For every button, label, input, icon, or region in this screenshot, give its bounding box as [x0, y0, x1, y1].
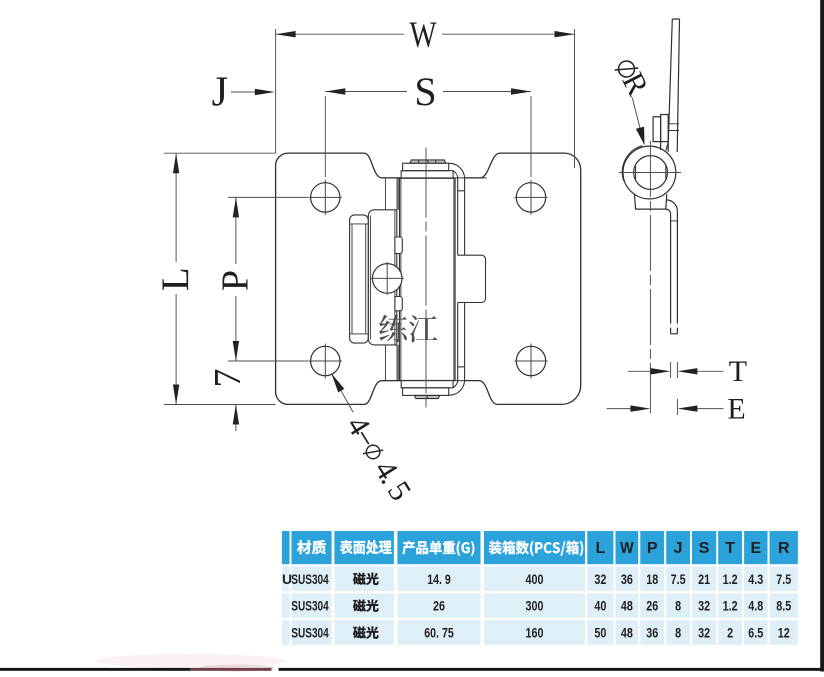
knuckle outer circle	[623, 146, 676, 199]
connecting verticals left of barrel	[385, 178, 398, 380]
svg-text:7: 7	[207, 369, 249, 388]
svg-text:SUS304: SUS304	[291, 598, 329, 614]
barrel bottom cap B	[403, 388, 449, 396]
svg-text:L: L	[596, 540, 606, 557]
svg-text:32: 32	[594, 571, 606, 587]
svg-text:18: 18	[646, 571, 658, 587]
pin bore flats	[636, 165, 666, 179]
svg-text:300: 300	[526, 598, 544, 614]
svg-text:W: W	[410, 15, 437, 56]
svg-text:T: T	[725, 540, 735, 557]
small latch bumps on link plate	[395, 237, 402, 254]
S extension lines	[325, 96, 531, 177]
svg-text:E: E	[727, 392, 745, 425]
neck below knuckle	[634, 194, 666, 210]
7 dimension tail below body	[235, 405, 237, 432]
svg-text:26: 26	[646, 598, 658, 614]
svg-text:S: S	[414, 69, 436, 114]
svg-text:36: 36	[646, 625, 658, 641]
barrel body	[400, 178, 456, 380]
center hole crosshair	[371, 262, 404, 295]
data row background strips	[282, 567, 798, 645]
header CJK labels as vector paths	[297, 540, 583, 556]
arrowheads side view	[630, 127, 697, 412]
svg-text:8: 8	[675, 598, 681, 614]
vertical center axis line	[425, 148, 427, 410]
svg-text:R: R	[778, 540, 790, 557]
center column: hinge knuckle barrel	[350, 160, 487, 399]
barrel bottom cap C	[401, 381, 453, 388]
svg-text:50: 50	[594, 625, 606, 641]
tick marks on upper plate	[669, 124, 679, 131]
page frame bottom rule	[0, 668, 190, 671]
svg-text:1.2: 1.2	[723, 598, 738, 614]
spring lever pill	[350, 215, 369, 343]
J leader line	[231, 91, 257, 93]
header latin letters	[596, 540, 791, 557]
stacked fold tabs left of plate	[653, 117, 661, 142]
barrel top ridge bumps	[410, 160, 446, 163]
svg-text:SUS304: SUS304	[291, 571, 329, 587]
svg-text:T: T	[729, 355, 747, 388]
svg-text:26: 26	[433, 598, 445, 614]
side view vertical axis centerline	[649, 141, 651, 413]
P dimension line	[235, 197, 237, 361]
barrel bottom ridge bumps	[414, 395, 439, 398]
W dimension line	[276, 33, 575, 35]
right leaf plate outline	[465, 153, 581, 404]
svg-text:8: 8	[675, 625, 681, 641]
rotated label phiR	[609, 53, 657, 101]
header row cells	[282, 531, 798, 564]
svg-text:L: L	[154, 267, 197, 291]
knuckle horizontal crosshair	[619, 172, 681, 174]
svg-text:W: W	[620, 540, 634, 557]
svg-text:60. 75: 60. 75	[424, 625, 454, 641]
svg-text:14. 9: 14. 9	[427, 571, 451, 587]
outer wrap top elbow	[449, 163, 465, 191]
svg-text:36: 36	[621, 571, 633, 587]
S dimension line	[325, 91, 531, 93]
dimension extension ticks T and E	[607, 98, 724, 416]
svg-text:P: P	[647, 540, 658, 557]
svg-text:6.5: 6.5	[748, 625, 763, 641]
svg-text:48: 48	[621, 598, 633, 614]
lower leaf break segment	[671, 328, 678, 334]
leader line 4-phi4.5	[331, 373, 353, 412]
holes 4-phi4.5 with crosshairs	[311, 183, 546, 376]
L extension lines	[164, 153, 276, 404]
page frame right rule	[820, 0, 824, 672]
svg-text:1.2: 1.2	[723, 571, 738, 587]
barrel top cap C	[401, 171, 453, 179]
E dimension tails	[607, 408, 724, 410]
data rows text	[282, 571, 792, 641]
T dimension tails	[628, 370, 724, 372]
faint pink smudge bottom-left	[95, 654, 285, 668]
knuckle pin bore	[634, 156, 668, 190]
middle link plate	[368, 210, 397, 345]
wrap side lines	[458, 191, 465, 367]
svg-text:4.8: 4.8	[748, 598, 763, 614]
ciguang cells	[353, 573, 378, 639]
arrowheads front view	[173, 31, 575, 425]
svg-text:SUS304: SUS304	[291, 625, 329, 641]
svg-text:P: P	[215, 270, 257, 291]
svg-text:E: E	[750, 540, 761, 557]
left leaf plate outline	[276, 153, 401, 404]
lower leaf plate edge-on	[671, 212, 678, 324]
ledge notch lines across	[382, 177, 487, 179]
watermark lianjiang	[379, 315, 437, 343]
svg-text:12: 12	[778, 625, 790, 641]
svg-text:21: 21	[698, 571, 710, 587]
svg-text:7.5: 7.5	[776, 571, 791, 587]
P extension lines	[228, 197, 309, 361]
svg-text:400: 400	[526, 571, 544, 587]
svg-text:40: 40	[594, 598, 606, 614]
svg-text:8.5: 8.5	[776, 598, 791, 614]
svg-text:J: J	[674, 540, 683, 557]
svg-text:4.3: 4.3	[748, 571, 763, 587]
upper flat plate (edge-on)	[666, 19, 680, 152]
svg-text:2: 2	[727, 625, 733, 641]
side tab on wrap	[458, 255, 486, 302]
center hole on axis	[372, 264, 402, 294]
L dimension line	[175, 153, 177, 404]
svg-text:S: S	[699, 540, 710, 557]
svg-text:J: J	[212, 70, 228, 116]
barrel top cap B	[403, 163, 449, 171]
W extension lines	[275, 29, 277, 153]
svg-text:48: 48	[621, 625, 633, 641]
svg-text:7.5: 7.5	[671, 571, 686, 587]
svg-text:160: 160	[526, 625, 544, 641]
rotated label 4-phi4.5	[340, 410, 419, 507]
svg-text:32: 32	[698, 625, 710, 641]
phiR leader line	[632, 98, 641, 135]
svg-text:32: 32	[698, 598, 710, 614]
lower leaf elbow curves	[666, 200, 677, 212]
outer wrap bottom elbow	[449, 367, 465, 395]
